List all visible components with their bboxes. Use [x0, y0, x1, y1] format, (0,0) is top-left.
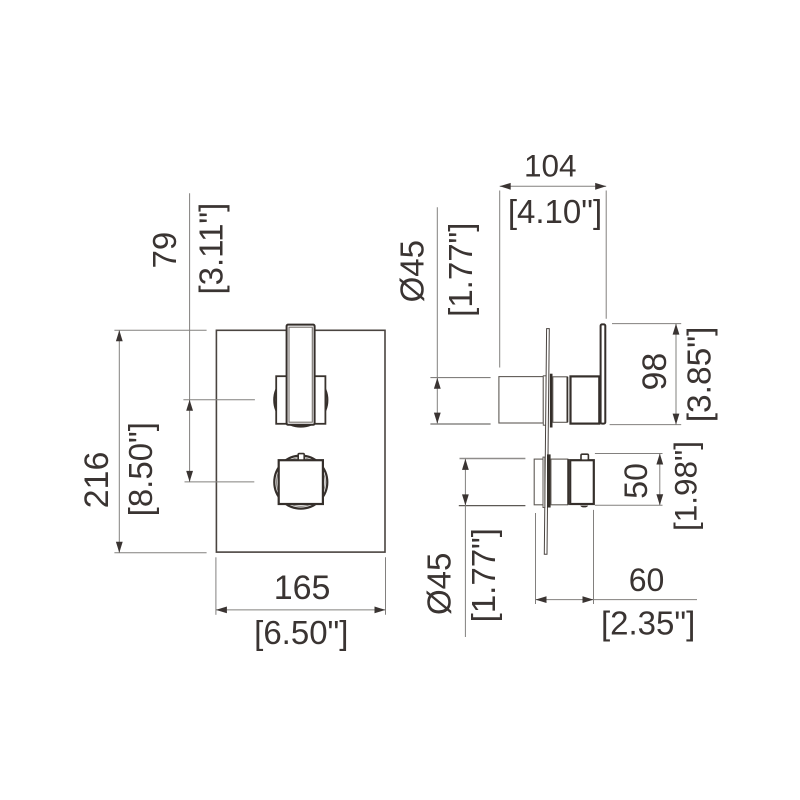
lower dark retaining band: [547, 454, 551, 507]
svg-text:[6.50"]: [6.50"]: [254, 614, 348, 651]
dim Ø45 upper arrow up: [434, 378, 441, 389]
dim 165 line: [216, 609, 386, 611]
dim 216 arrow down: [116, 542, 123, 553]
lower knob square: [279, 460, 323, 504]
dim 216 arrow up: [116, 330, 123, 341]
svg-text:[3.85"]: [3.85"]: [682, 327, 719, 423]
upper handle body: [571, 376, 600, 423]
lower knob tab side: [581, 454, 588, 460]
front plate: [216, 330, 385, 552]
dim 79 extension lower (knob centerline): [185, 481, 255, 483]
dim 60 arrow right: [583, 596, 594, 603]
svg-text:Ø45: Ø45: [394, 240, 431, 302]
lower sleeve front edge: [567, 459, 569, 505]
lower valve body: [534, 459, 543, 505]
upper sleeve front edge: [566, 377, 568, 423]
dim 104 extension left: [499, 191, 501, 368]
dim 165 arrow left: [216, 607, 227, 614]
lower knob body: [570, 460, 594, 504]
dim 79 line with leader: [189, 193, 191, 482]
svg-text:[1.98"]: [1.98"]: [668, 441, 704, 531]
svg-text:79: 79: [146, 232, 183, 269]
dim 79 arrow up: [186, 400, 193, 411]
upper lever blade outer: [287, 325, 315, 425]
dim 50 arrow up: [656, 454, 663, 465]
dim Ø45 lower line with leader: [464, 459, 466, 638]
dim Ø45 lower extension top: [460, 458, 526, 460]
dim Ø45 upper line with leader: [436, 207, 438, 423]
dim 165 arrow right: [375, 607, 386, 614]
lower knob bottom nub: [580, 506, 588, 508]
lower knob outer circle: [274, 456, 327, 509]
dim 98 arrow up: [673, 324, 680, 335]
svg-text:[4.10"]: [4.10"]: [508, 193, 602, 230]
dim 50 arrow down: [656, 494, 663, 505]
dim 98 extension bottom: [610, 424, 682, 426]
upper handle outer circle: [274, 374, 327, 427]
lower flange ring: [543, 457, 545, 507]
upper valve body: [499, 377, 543, 423]
dim 79 arrow down: [186, 471, 193, 482]
dim 79 extension upper (handle centerline): [183, 399, 255, 401]
svg-text:[8.50"]: [8.50"]: [122, 422, 159, 516]
dim 104 extension right: [605, 191, 607, 319]
dim Ø45 upper arrow down: [434, 413, 441, 424]
svg-text:Ø45: Ø45: [421, 553, 458, 615]
dim Ø45 upper extension top: [430, 377, 490, 379]
svg-text:165: 165: [274, 569, 331, 607]
upper handle square flange: [276, 376, 325, 424]
dim Ø45 lower extension bottom: [459, 505, 526, 507]
dim 60 line: [536, 599, 698, 601]
upper lever blade side: [601, 324, 606, 423]
upper lever blade inner line: [289, 327, 312, 422]
upper sleeve: [553, 377, 567, 423]
lower knob top tab: [298, 454, 304, 460]
dim Ø45 lower arrow down: [462, 494, 469, 505]
dim 104 arrow right: [595, 183, 606, 190]
svg-text:[1.77"]: [1.77"]: [442, 223, 479, 317]
wall plate edge-on (slanted): [544, 329, 549, 555]
dim 98 arrow down: [673, 414, 680, 425]
dim 104 arrow left: [500, 183, 511, 190]
lower knob inner circle: [277, 458, 326, 507]
dim 60 arrow left: [536, 596, 547, 603]
svg-text:98: 98: [636, 353, 674, 391]
svg-text:[2.35"]: [2.35"]: [601, 604, 695, 641]
dim 216 line: [118, 330, 120, 553]
dim 50 line: [659, 454, 661, 506]
upper dark retaining band: [550, 374, 553, 428]
svg-text:[3.11"]: [3.11"]: [193, 203, 230, 295]
lower sleeve: [551, 459, 568, 505]
svg-text:[1.77"]: [1.77"]: [465, 528, 502, 622]
dim 165 extension left: [215, 557, 217, 615]
dim Ø45 lower arrow up: [462, 459, 469, 470]
dim 60 extension right: [593, 510, 595, 604]
svg-text:216: 216: [78, 452, 116, 509]
dim 98 line: [675, 324, 677, 425]
dim 216 extension top: [114, 329, 206, 331]
dim 165 extension right: [385, 557, 387, 615]
svg-text:104: 104: [524, 147, 577, 183]
upper handle inner circle: [277, 376, 326, 425]
dim 104 line: [500, 185, 607, 187]
svg-text:60: 60: [629, 562, 665, 598]
svg-text:50: 50: [618, 463, 654, 499]
dim 50 extension top: [595, 453, 663, 455]
dim 216 extension bottom: [114, 552, 206, 554]
dim 50 extension bottom: [595, 504, 663, 506]
upper flange ring: [543, 376, 546, 425]
dim 98 extension top: [612, 323, 681, 325]
dim Ø45 upper extension bottom: [430, 423, 490, 425]
dim 60 extension left: [535, 513, 537, 604]
